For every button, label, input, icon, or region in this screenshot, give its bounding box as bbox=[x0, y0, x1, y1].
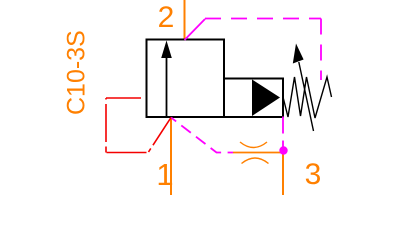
svg-text:2: 2 bbox=[158, 1, 175, 34]
svg-text:C10-3S: C10-3S bbox=[63, 30, 91, 115]
pilot line top horizontal bbox=[205, 18, 321, 20]
adjustment arrow shaft bbox=[299, 62, 314, 131]
flow arrow shaft bbox=[166, 56, 168, 117]
flow arrow head bbox=[161, 41, 172, 59]
red pilot top horizontal to valve body bbox=[106, 97, 147, 99]
orifice restriction arcs bbox=[240, 142, 269, 164]
pilot line bottom (port1 to orifice) bbox=[171, 118, 233, 153]
red pilot bottom horizontal bbox=[107, 152, 147, 154]
wire port 2 line bbox=[184, 0, 186, 39]
wire port 1 line bbox=[170, 116, 172, 195]
svg-text:3: 3 bbox=[305, 158, 322, 191]
wire port 3 line bbox=[282, 153, 284, 195]
red pilot left vertical bbox=[105, 98, 107, 153]
wire orifice feed line bbox=[233, 152, 283, 154]
valve body box bbox=[147, 40, 225, 118]
pilot line check valve drain vertical bbox=[282, 117, 284, 148]
adjustment arrow head bbox=[293, 44, 304, 64]
junction node dot bbox=[279, 146, 287, 154]
check valve poppet triangle bbox=[252, 80, 280, 117]
pilot line top diagonal from port 2 bbox=[185, 19, 206, 40]
red pilot diagonal to port 1 junction bbox=[149, 118, 172, 153]
spring bbox=[283, 77, 332, 118]
check valve box bbox=[224, 79, 283, 118]
pilot line right vertical to spring vent bbox=[320, 19, 322, 81]
